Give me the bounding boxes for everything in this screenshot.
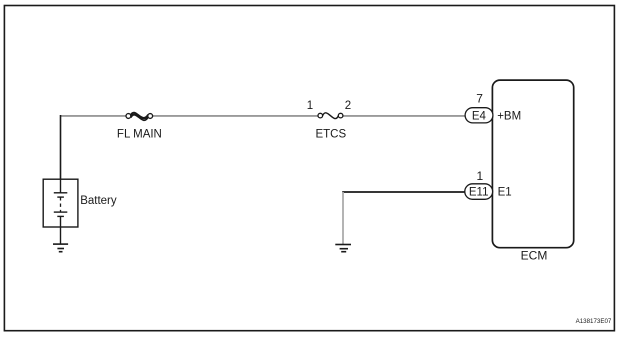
svg-text:2: 2 — [345, 100, 351, 112]
svg-text:1: 1 — [476, 169, 483, 183]
svg-text:7: 7 — [476, 91, 483, 105]
svg-text:A138173E07: A138173E07 — [576, 318, 612, 325]
svg-text:E4: E4 — [472, 111, 487, 123]
svg-text:1: 1 — [307, 100, 313, 112]
svg-text:+BM: +BM — [497, 111, 521, 123]
svg-text:Battery: Battery — [80, 195, 117, 207]
svg-text:E1: E1 — [498, 187, 512, 199]
svg-text:FL MAIN: FL MAIN — [117, 129, 162, 141]
svg-text:ETCS: ETCS — [315, 129, 346, 141]
svg-text:E11: E11 — [469, 187, 489, 199]
svg-text:ECM: ECM — [521, 248, 548, 262]
